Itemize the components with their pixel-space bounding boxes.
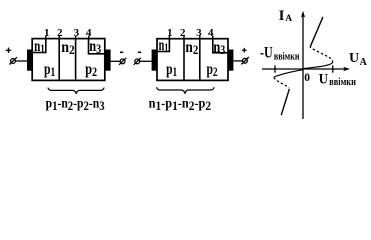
wire T3 to structure 2 left electrode xyxy=(140,60,152,62)
svg-text:n2: n2 xyxy=(185,39,198,57)
structure 1 divider p1/n2 xyxy=(58,39,60,81)
IV curve Q1 off-state branch xyxy=(303,63,333,69)
svg-text:ввімкн: ввімкн xyxy=(274,51,300,62)
terminal T1 xyxy=(9,57,17,64)
structure 1 divider n2/p2 xyxy=(75,39,77,81)
structure 2 junction tick 2 xyxy=(183,36,185,40)
wire structure 2 right electrode to T4 xyxy=(233,60,242,62)
terminal T4 plus sign xyxy=(242,48,247,53)
svg-text:n1-p1-n2-p2: n1-p1-n2-p2 xyxy=(149,97,212,113)
terminal T4 xyxy=(241,57,249,64)
svg-text:p2: p2 xyxy=(85,61,97,79)
svg-text:1: 1 xyxy=(44,27,50,39)
svg-text:n1: n1 xyxy=(159,37,169,55)
structure 2 divider p1/n2 xyxy=(183,39,185,81)
svg-text:n3: n3 xyxy=(89,38,101,56)
structure 2 brace xyxy=(157,87,214,93)
structure 2 junction tick 1 xyxy=(168,36,170,40)
terminal T2 minus sign xyxy=(120,51,123,53)
terminal T1 plus sign xyxy=(6,48,11,53)
structure 1 junction tick 2 xyxy=(58,36,60,39)
structure 2 right electrode xyxy=(228,50,233,71)
svg-text:p2: p2 xyxy=(207,61,218,79)
svg-text:n1: n1 xyxy=(34,38,45,56)
IV curve x-axis xyxy=(262,68,347,70)
IV curve y-axis xyxy=(302,13,304,119)
structure 1 left electrode xyxy=(27,50,32,71)
IV curve Q1 on-state branch xyxy=(310,17,323,47)
structure 1 junction tick 4 xyxy=(88,36,90,39)
IV curve tick -Uon xyxy=(274,65,276,72)
svg-text:1: 1 xyxy=(167,27,173,39)
svg-text:n3: n3 xyxy=(213,39,225,57)
IV curve Q3 off-state branch xyxy=(274,70,303,78)
svg-text:U: U xyxy=(319,71,328,87)
svg-text:0: 0 xyxy=(304,72,310,84)
svg-text:3: 3 xyxy=(74,27,80,39)
svg-text:p1: p1 xyxy=(44,61,55,79)
svg-text:2: 2 xyxy=(57,27,63,39)
structure 2 body outline xyxy=(157,39,228,81)
svg-text:ввімкн: ввімкн xyxy=(329,77,356,88)
IV curve Q1 negative resistance branch (dashed) xyxy=(310,47,332,63)
svg-text:n2: n2 xyxy=(61,39,74,57)
structure 1 junction tick 3 xyxy=(75,36,77,39)
structure 2 divider n2/p2 xyxy=(199,39,201,81)
structure 2 junction tick 3 xyxy=(199,36,201,40)
IV curve tick +Uon xyxy=(332,65,334,72)
structure 1 brace xyxy=(48,88,104,94)
IV curve Q3 negative resistance branch (dashed) xyxy=(274,77,289,88)
svg-text:p1: p1 xyxy=(166,61,177,79)
terminal T3 xyxy=(134,58,141,65)
structure 1 body outline xyxy=(32,39,105,81)
svg-text:IA: IA xyxy=(279,8,293,24)
svg-text:2: 2 xyxy=(180,27,186,39)
structure 1 n1 region box xyxy=(32,39,46,53)
structure 1 junction tick 1 xyxy=(45,36,47,39)
IV curve x-axis arrowhead xyxy=(343,67,350,71)
IV curve y-axis arrowhead xyxy=(301,11,305,18)
terminal T2 xyxy=(119,58,126,65)
svg-text:4: 4 xyxy=(208,27,214,39)
svg-text:UA: UA xyxy=(349,51,368,68)
svg-text:-U: -U xyxy=(260,44,273,61)
structure 2 n1 region box xyxy=(157,39,170,52)
svg-text:p1-n2-p2-n3: p1-n2-p2-n3 xyxy=(46,96,105,112)
structure 1 n3 region box xyxy=(88,39,105,54)
structure 2 left electrode xyxy=(152,50,157,71)
terminal T3 minus sign xyxy=(138,51,141,53)
structure 2 junction tick 4 xyxy=(212,36,214,40)
structure 2 n3 region box xyxy=(212,39,228,53)
IV curve Q3 on-state branch xyxy=(281,89,289,115)
structure 1 right electrode xyxy=(105,50,110,71)
wire T1 to left electrode xyxy=(15,60,27,62)
svg-text:3: 3 xyxy=(196,27,202,39)
wire right electrode to T2 xyxy=(111,60,121,62)
